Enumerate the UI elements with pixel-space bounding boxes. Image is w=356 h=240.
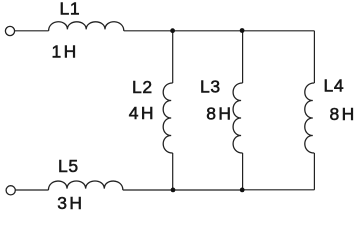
svg-text:4H: 4H xyxy=(129,103,156,123)
wire L3 coil to bottom node B2 xyxy=(242,153,244,190)
node A2 junction dot (top, L3) xyxy=(240,28,245,33)
wire top-left: terminal to L1 xyxy=(15,30,49,32)
inductor L3 coil xyxy=(233,83,243,153)
inductor L1 coil xyxy=(49,22,124,31)
wire L2 coil to bottom node B1 xyxy=(172,153,174,190)
svg-text:L1: L1 xyxy=(60,0,81,19)
node B1 junction dot (bottom, L2) xyxy=(171,188,176,193)
wire bottom: L5 to node B1 and B2 xyxy=(123,189,242,191)
terminal T2 (bottom-left open circle) xyxy=(6,186,15,195)
node A1 junction dot (top, L2) xyxy=(170,28,175,33)
node B2 junction dot (bottom, L3) xyxy=(240,188,245,193)
svg-text:3H: 3H xyxy=(57,193,84,212)
svg-text:L5: L5 xyxy=(58,156,79,176)
wire bottom right: corner to node B2 xyxy=(242,189,314,191)
terminal T1 (top-left open circle) xyxy=(5,26,14,35)
svg-text:L4: L4 xyxy=(324,76,345,96)
svg-text:L3: L3 xyxy=(200,77,221,97)
svg-text:1H: 1H xyxy=(52,42,79,62)
inductor L5 coil xyxy=(48,181,123,190)
wire right vertical: L4 coil to bottom corner xyxy=(313,153,315,190)
svg-text:8H: 8H xyxy=(206,104,233,124)
svg-text:L2: L2 xyxy=(132,77,153,97)
wire bottom-left: terminal to L5 xyxy=(15,189,48,191)
svg-text:8H: 8H xyxy=(330,104,356,124)
inductor L4 coil xyxy=(305,83,315,153)
wire top: L1 to top-right corner xyxy=(124,30,315,32)
wire from L2 top node to L2 coil xyxy=(172,31,174,83)
wire from L3 top node to L3 coil xyxy=(242,31,244,83)
inductor L2 coil xyxy=(163,83,173,153)
wire right vertical: top corner to L4 coil xyxy=(313,31,315,83)
